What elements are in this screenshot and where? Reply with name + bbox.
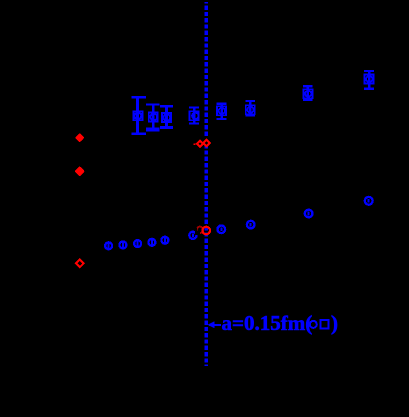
svg-text:a=0.15fm(: a=0.15fm( bbox=[222, 311, 313, 335]
svg-text:): ) bbox=[331, 311, 338, 335]
